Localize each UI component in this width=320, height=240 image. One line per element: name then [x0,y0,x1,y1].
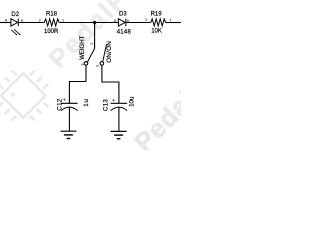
resistor R18 [44,19,59,26]
watermark chip logo [0,59,60,133]
switch S1 WEIGHT lever [88,49,95,62]
svg-text:R18: R18 [46,11,58,17]
diode D2 [11,19,18,27]
svg-text:R19: R19 [151,12,163,18]
svg-text:1u: 1u [83,98,90,106]
resistor R19 [151,19,166,26]
wire stub to switch S1 [94,23,96,49]
capacitor C13 [111,103,128,131]
capacitor C12 [61,103,78,130]
wire from S2 to C13 [102,65,119,103]
ground under C13 [111,131,127,138]
svg-text:WEIGHT: WEIGHT [80,35,86,59]
svg-text:+: + [63,98,66,104]
svg-text:4148: 4148 [117,29,132,35]
wire left [0,22,11,24]
wire right [166,22,181,24]
svg-text:A: A [5,18,8,23]
switch S2 lever [103,45,107,62]
switch S2 pole circle [100,62,104,66]
junction node [93,21,96,24]
svg-text:10u: 10u [129,96,136,107]
wire [126,22,151,24]
svg-text:D2: D2 [11,12,19,18]
diode D3 [118,19,125,27]
LED arrows of D2 [11,30,21,36]
svg-text:C13: C13 [103,99,110,112]
svg-text:ON/ON: ON/ON [106,41,113,63]
svg-text:100R: 100R [44,29,59,35]
svg-text:+: + [112,98,115,104]
svg-text:10K: 10K [151,28,162,34]
ground under C12 [60,131,76,138]
switch S1 pole circle [84,62,88,66]
wire [18,22,44,24]
wire [59,22,118,24]
wire from S1 to C12 [69,65,86,103]
svg-text:A: A [114,18,117,23]
svg-text:D3: D3 [119,11,127,17]
